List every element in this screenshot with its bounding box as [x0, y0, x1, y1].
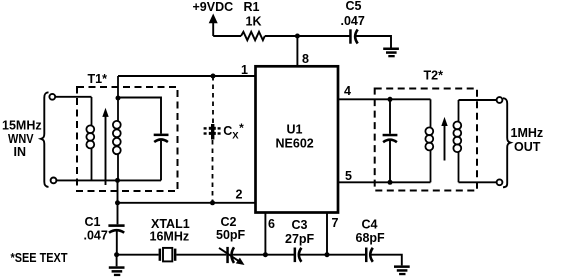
- svg-text:2: 2: [236, 188, 243, 202]
- svg-text:C4: C4: [362, 218, 378, 232]
- wire pin 4: [338, 98, 431, 100]
- label 1MHz OUT: [511, 126, 544, 154]
- wire supply to R1: [213, 35, 241, 37]
- T1 primary winding: [86, 97, 94, 180]
- wire pin 1: [118, 75, 256, 77]
- capacitor C1: [108, 224, 124, 232]
- svg-text:*SEE TEXT: *SEE TEXT: [11, 251, 68, 265]
- svg-text:C1: C1: [85, 215, 101, 229]
- wire C4 to ground: [371, 255, 402, 266]
- wire input top to T1 primary: [55, 96, 91, 98]
- node Cx top: [211, 74, 216, 79]
- svg-text:1K: 1K: [246, 15, 262, 29]
- wire pin 5: [338, 181, 431, 183]
- svg-text:NE602: NE602: [276, 137, 314, 151]
- T2 core arrow: [441, 117, 447, 161]
- ground (C1): [109, 255, 125, 276]
- input terminal bottom: [51, 178, 57, 184]
- T2 tuning capacitor: [383, 99, 398, 182]
- ground (C5): [383, 48, 399, 58]
- svg-text:50pF: 50pF: [216, 228, 246, 242]
- capacitor C5: [349, 29, 358, 43]
- capacitor Cx dashed lead top: [212, 76, 214, 124]
- svg-text:7: 7: [332, 216, 339, 230]
- crystal XTAL1: [159, 248, 177, 262]
- svg-text:1: 1: [241, 63, 248, 77]
- output terminal bottom: [497, 179, 503, 185]
- T1 tuning capacitor: [154, 134, 169, 181]
- node T1 secondary top: [116, 96, 121, 101]
- svg-text:16MHz: 16MHz: [150, 230, 190, 244]
- svg-text:R1: R1: [244, 0, 260, 14]
- label 15MHz WNV IN: [2, 119, 42, 160]
- output terminal top: [497, 97, 503, 103]
- wire T2 secondary top to terminal: [459, 99, 497, 101]
- node pin 6 junction: [263, 252, 268, 257]
- node T1 bottom junction: [115, 178, 120, 183]
- resistor R1: [241, 32, 265, 40]
- transformer T1 dashed box: [77, 87, 178, 191]
- wire R1 to C5: [265, 35, 351, 37]
- svg-text:+9VDC: +9VDC: [193, 0, 234, 14]
- transformer T2 dashed box: [375, 89, 477, 191]
- svg-text:27pF: 27pF: [285, 232, 315, 246]
- node junction top rail: [295, 34, 300, 39]
- svg-text:T1*: T1*: [88, 72, 108, 86]
- wire pin 7: [326, 213, 328, 255]
- wire C1 to bottom rail: [116, 232, 118, 255]
- svg-text:6: 6: [268, 217, 275, 231]
- input brace: [41, 92, 49, 187]
- output brace: [503, 98, 511, 187]
- svg-text:WNV: WNV: [8, 132, 34, 146]
- op-amp U1 NE602 box: [256, 66, 339, 212]
- svg-text:4: 4: [344, 84, 351, 98]
- node pin 7 junction: [325, 252, 330, 257]
- wire pin 6: [264, 213, 266, 255]
- wire input bottom rail: [57, 179, 162, 181]
- svg-text:5: 5: [345, 169, 352, 183]
- node pin2/T1: [115, 200, 120, 205]
- svg-text:.047: .047: [341, 14, 365, 28]
- svg-text:15MHz: 15MHz: [2, 119, 42, 133]
- capacitor C4: [365, 248, 373, 263]
- wire C2 to C3: [233, 254, 295, 256]
- ground (C4): [394, 265, 410, 275]
- svg-text:8: 8: [302, 52, 309, 66]
- node pin4/T2: [388, 97, 393, 102]
- wire T1 top to tuning cap: [118, 98, 161, 134]
- capacitor C2 (variable): [219, 247, 245, 265]
- T1 core arrow: [102, 108, 108, 185]
- svg-text:C5: C5: [346, 0, 362, 13]
- svg-text:C3: C3: [292, 218, 308, 232]
- wire T2 secondary bottom to terminal: [459, 181, 497, 183]
- node pin5/T2: [388, 180, 393, 185]
- svg-text:1MHz: 1MHz: [511, 126, 544, 140]
- svg-text:OUT: OUT: [514, 140, 541, 154]
- wire pin 2: [118, 202, 256, 204]
- wire C3 to C4: [300, 254, 366, 256]
- capacitor Cx dashed lead bottom: [212, 140, 214, 203]
- svg-text:IN: IN: [14, 145, 27, 159]
- +9VDC supply arrow: [209, 14, 218, 37]
- capacitor C3: [294, 248, 302, 263]
- node pin2/Cx: [210, 200, 215, 205]
- svg-text:.047: .047: [84, 229, 108, 243]
- svg-text:U1: U1: [287, 123, 303, 137]
- svg-text:68pF: 68pF: [356, 231, 386, 245]
- capacitor Cx: [204, 124, 221, 140]
- wire T1 riser to C1: [117, 180, 119, 224]
- wire C5 to ground: [356, 36, 391, 48]
- wire XTAL1 to C2: [176, 254, 226, 256]
- input terminal top: [49, 94, 55, 100]
- wire pin 8: [296, 36, 298, 67]
- T1 secondary winding: [113, 76, 121, 180]
- wire bottom rail to XTAL1: [117, 254, 159, 256]
- T2 secondary winding: [453, 100, 461, 182]
- T2 primary winding: [425, 99, 433, 182]
- node bottom rail left: [114, 252, 119, 257]
- svg-text:T2*: T2*: [424, 69, 444, 83]
